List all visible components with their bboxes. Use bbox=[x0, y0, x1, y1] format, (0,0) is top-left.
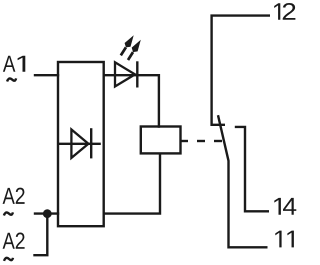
coil actuation dashed link segment 2 bbox=[197, 140, 205, 142]
AC tilde under lower A2 bbox=[4, 258, 13, 261]
diode D1 cathode bar bbox=[90, 128, 92, 158]
relay coil K1 bbox=[141, 127, 181, 154]
terminal label 14 bbox=[274, 198, 296, 215]
fixed contact 14 bracket and wire to terminal 14 bbox=[235, 127, 269, 211]
wire terminal 12 down to fixed contact with foot bbox=[212, 16, 270, 125]
AC tilde under upper A2 bbox=[4, 212, 13, 215]
coil actuation dashed link segment 3 bbox=[214, 140, 222, 142]
AC tilde under A1 bbox=[7, 78, 16, 81]
movable contact lever and wire to terminal 11 bbox=[218, 115, 268, 247]
terminal label A2 upper bbox=[3, 188, 25, 204]
wire A1 to rectifier bbox=[34, 74, 59, 76]
terminal label A1 bbox=[3, 56, 25, 72]
LED D2 cathode bar bbox=[136, 61, 138, 87]
LED D2 triangle bbox=[115, 62, 135, 86]
terminal label 12 bbox=[274, 3, 295, 20]
coil actuation dashed link segment 1 bbox=[181, 140, 188, 142]
wire upper A2 to rectifier bbox=[34, 212, 59, 214]
diode D1 triangle bbox=[71, 130, 88, 158]
LED light arrow 2 bbox=[128, 40, 141, 60]
terminal label A2 lower bbox=[3, 233, 25, 249]
rectifier box U1 bbox=[58, 62, 104, 226]
wire rectifier to LED and corner down to coil bbox=[104, 75, 159, 128]
diode D1 horizontal lead inside rectifier bbox=[58, 143, 101, 145]
terminal label 11 bbox=[275, 231, 294, 248]
junction dot node A2 bbox=[43, 209, 52, 218]
LED light arrow 1 bbox=[121, 35, 134, 55]
wire lower A2 up to junction bbox=[33, 214, 47, 256]
wire coil bottom return to rectifier bbox=[104, 153, 160, 213]
